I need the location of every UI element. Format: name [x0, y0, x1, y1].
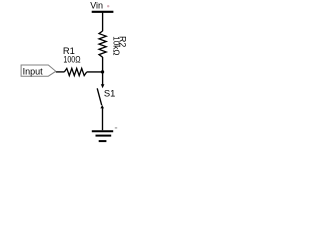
svg-text:Input: Input [23, 66, 44, 76]
svg-text:Vin: Vin [90, 1, 103, 11]
svg-text:100Ω: 100Ω [63, 53, 80, 64]
svg-text:10kΩ: 10kΩ [112, 36, 121, 55]
svg-text:S1: S1 [104, 87, 115, 98]
